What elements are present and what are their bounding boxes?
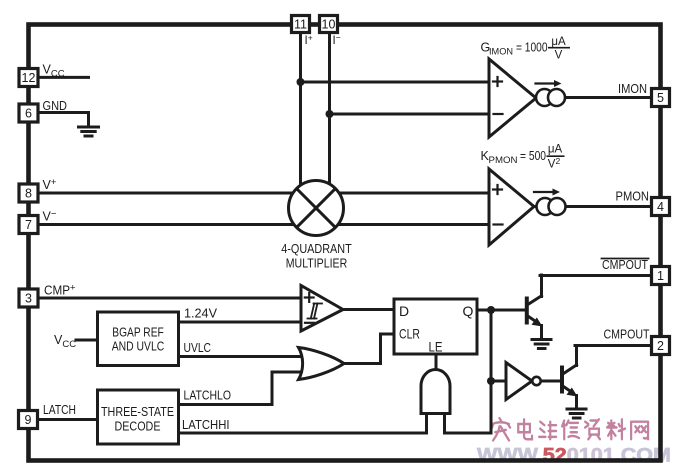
wire CMP+ from pin 3 to comparator <box>37 297 302 300</box>
THREE-STATE DECODE block <box>98 390 179 444</box>
overline for CMPOUT pin 1 <box>602 258 649 260</box>
pin 11 <box>292 16 310 33</box>
svg-text:2: 2 <box>657 339 664 353</box>
svg-text:IMON: IMON <box>489 46 513 57</box>
svg-text:CMPOUT: CMPOUT <box>604 328 650 342</box>
svg-text:Q: Q <box>463 303 474 319</box>
svg-text:THREE-STATE: THREE-STATE <box>101 405 174 419</box>
wire LATCH from pin 9 to decode block <box>37 418 98 421</box>
op-amp PMON transconductance amp <box>489 169 534 245</box>
node junction on I+ line <box>297 78 305 86</box>
pin 10 <box>320 16 338 33</box>
svg-text:μA: μA <box>548 144 563 156</box>
svg-text:PMON: PMON <box>489 155 518 166</box>
svg-text:LATCHLO: LATCHLO <box>184 389 232 403</box>
wire Q feedback down to AND gate input <box>445 310 492 433</box>
wire LATCHLO from decode block to OR gate <box>178 372 304 405</box>
OR gate U4 <box>299 348 345 380</box>
wire Q output to transistor Q1 base <box>477 309 526 312</box>
pin 5 <box>652 89 670 107</box>
pin 8 <box>19 184 38 202</box>
watermark line 1: hand-drawn CJK strokes <box>492 418 648 440</box>
svg-text:LE: LE <box>429 339 443 355</box>
ground at Q2 emitter <box>567 409 586 418</box>
wire LE vertical from flip-flop to AND gate <box>435 354 438 370</box>
arrow above IMON current source <box>536 82 556 84</box>
svg-text:IMON: IMON <box>618 82 647 96</box>
wire UVLC from BGAP to OR gate <box>178 355 304 358</box>
svg-text:4-QUADRANT: 4-QUADRANT <box>281 242 352 256</box>
AND gate U6 <box>421 370 450 414</box>
svg-text:GND: GND <box>43 99 68 113</box>
inverter U7 <box>506 363 532 400</box>
wire GND from pin 6 <box>37 113 89 128</box>
wire inverter input <box>491 380 506 383</box>
svg-text:12: 12 <box>22 71 36 85</box>
wire 1.24V from BGAP to comparator - input <box>178 321 302 324</box>
svg-text:9: 9 <box>25 413 32 427</box>
transistor Q1 <box>527 275 652 339</box>
svg-text:DECODE: DECODE <box>115 420 161 434</box>
svg-text:1.24V: 1.24V <box>184 307 218 321</box>
svg-text:6: 6 <box>25 107 32 121</box>
svg-text:MULTIPLIER: MULTIPLIER <box>286 257 348 271</box>
svg-text:CLR: CLR <box>399 326 420 342</box>
svg-text:μA: μA <box>551 36 566 48</box>
wire PMON output to pin 4 <box>533 205 652 208</box>
arrow above PMON current source <box>534 191 554 193</box>
wire V+ net from pin 8 to PMON amp + input <box>37 192 489 195</box>
current source PMON <box>537 198 554 215</box>
svg-text:10: 10 <box>322 18 336 32</box>
4-quadrant multiplier <box>289 181 344 236</box>
svg-text:= 1000: = 1000 <box>516 41 548 55</box>
svg-text:11: 11 <box>294 18 307 32</box>
pin 6 <box>19 104 38 122</box>
wire V- net from pin 7 to PMON amp - input <box>37 223 489 226</box>
D flip-flop U5 <box>394 299 477 354</box>
svg-text:4: 4 <box>657 200 664 214</box>
svg-text:3: 3 <box>25 292 32 306</box>
wire inverter output to Q2 base <box>541 380 561 383</box>
wire comparator output to D input <box>343 308 394 311</box>
pin 4 <box>652 198 670 216</box>
ground at Q1 emitter <box>532 340 551 349</box>
wire LATCHHI from decode block to AND gate input <box>178 413 427 433</box>
pin 1 <box>652 267 670 285</box>
svg-text:7: 7 <box>25 218 32 232</box>
comparator U3 with hysteresis <box>301 286 343 332</box>
svg-text:5: 5 <box>657 91 664 105</box>
transistor Q2 <box>562 346 652 409</box>
svg-text:D: D <box>399 303 409 319</box>
svg-text:WWW.520101.COM: WWW.520101.COM <box>477 445 671 467</box>
svg-text:BGAP REF: BGAP REF <box>112 326 164 340</box>
BGAP REF AND UVLC block <box>98 312 179 366</box>
svg-text:V: V <box>555 50 563 62</box>
pin 2 <box>652 337 670 355</box>
node junction at Q output <box>487 306 495 314</box>
ground symbol at GND <box>79 127 99 136</box>
pin 9 <box>19 411 38 429</box>
wire VCC stub from pin 12 <box>37 76 89 79</box>
svg-text:LATCHHI: LATCHHI <box>182 418 230 432</box>
pin 3 <box>19 289 38 307</box>
wire VCC into BGAP block <box>76 339 98 342</box>
svg-text:1: 1 <box>657 269 664 283</box>
svg-text:= 500: = 500 <box>520 149 546 163</box>
current source IMON <box>536 89 553 106</box>
wire I+ branch to IMON amp + input <box>301 81 490 84</box>
wire I- vertical from pin 10 into multiplier <box>328 32 331 200</box>
svg-text:LATCH: LATCH <box>43 403 76 417</box>
op-amp IMON transconductance amp <box>489 59 536 137</box>
pin 7 <box>19 216 38 234</box>
hysteresis symbol <box>308 304 323 319</box>
svg-text:PMON: PMON <box>616 190 650 204</box>
pin 12 <box>19 69 38 87</box>
svg-text:CMPOUT: CMPOUT <box>602 258 648 272</box>
node junction at inverter tap <box>487 377 495 385</box>
svg-text:UVLC: UVLC <box>184 341 212 355</box>
wire OR gate output to CLR input <box>344 334 394 364</box>
svg-text:AND UVLC: AND UVLC <box>112 340 165 354</box>
svg-text:8: 8 <box>25 187 32 201</box>
wire IMON output to pin 5 <box>536 96 652 99</box>
wire I- branch to IMON amp - input <box>330 113 490 116</box>
node junction on I- line <box>326 110 334 118</box>
wire I+ vertical from pin 11 into multiplier <box>299 32 302 200</box>
